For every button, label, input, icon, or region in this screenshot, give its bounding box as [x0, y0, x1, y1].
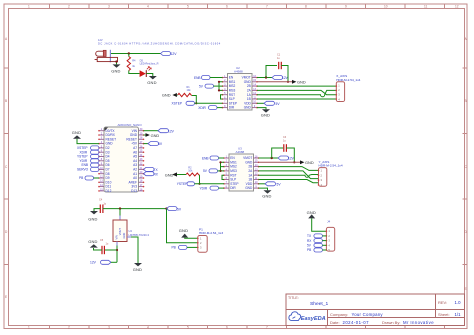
svg-text:6: 6 [226, 5, 228, 9]
net label YSTEP [177, 182, 224, 186]
capacitor C1 [277, 54, 288, 82]
net label 5V (U1 +5V) [144, 142, 163, 147]
U1 left pins [99, 131, 104, 191]
junction [271, 157, 273, 159]
net label YSTEP (U1 D4) [77, 155, 99, 159]
svg-text:4: 4 [147, 5, 149, 9]
power flag GND (U3 right) [300, 160, 314, 165]
svg-text:1: 1 [28, 326, 30, 330]
svg-text:XDIR: XDIR [198, 106, 206, 110]
junction [293, 161, 295, 163]
net label 5V (J4 pin4) [307, 243, 326, 247]
IC U4 LM7805 [113, 209, 149, 242]
net flag 12V (regulator in) [90, 260, 117, 264]
wire C1 loop [266, 66, 277, 78]
wire VMOT (U3) [259, 157, 279, 159]
svg-text:GND: GND [179, 228, 188, 233]
svg-text:PB: PB [79, 176, 83, 180]
svg-text:12V: 12V [171, 52, 178, 56]
capacitor C5 [100, 239, 117, 254]
net label YDIR [200, 186, 225, 190]
svg-text:GND: GND [305, 160, 314, 165]
U3 right pins [254, 158, 259, 188]
svg-text:2: 2 [68, 326, 70, 330]
pin numbers U2 [224, 75, 256, 108]
wire 5V rail (regulator out) [103, 208, 167, 210]
net label XSTEP [172, 101, 223, 105]
svg-text:XSTEP: XSTEP [172, 102, 182, 106]
svg-text:VOUT: VOUT [118, 228, 122, 236]
connector J4 [326, 220, 335, 253]
svg-text:GND: GND [147, 80, 156, 85]
wire RST-SLP tie [221, 95, 223, 99]
svg-text:R4: R4 [132, 59, 136, 63]
wire 2B to Y_AXIS pin1 [259, 167, 319, 171]
net flag 12V (U3 VMOT) [278, 156, 295, 161]
wire 1B to X_AXIS pin4 [257, 98, 336, 100]
junction [165, 207, 167, 209]
wire RST-SLP tie (U3) [222, 175, 224, 179]
wire U2 GND pin [257, 81, 292, 83]
svg-text:D13: D13 [131, 189, 137, 193]
svg-text:12: 12 [455, 5, 459, 9]
U2 pin names [229, 76, 237, 110]
capacitor C4 [99, 199, 107, 214]
power flag GND (R2) [165, 172, 177, 177]
svg-text:GND: GND [88, 239, 97, 244]
junction [265, 76, 267, 78]
U3 pin names [230, 156, 238, 190]
svg-text:GND: GND [165, 172, 174, 177]
svg-text:LED-Red,box_R: LED-Red,box_R [140, 62, 159, 66]
svg-text:3: 3 [108, 5, 110, 9]
svg-text:Sheet:: Sheet: [438, 312, 450, 317]
svg-text:B: B [5, 99, 7, 103]
power flag GND (R1) [162, 93, 177, 98]
net label ENB [194, 76, 223, 80]
wire 2A to X_AXIS pin3 (cross) [257, 90, 336, 94]
net label ENB (U3) [202, 156, 224, 160]
wire 1A to X_AXIS pin2 (hop) [257, 90, 336, 96]
svg-text:DC JACK C-01604 HTTPS://AM.ZUH: DC JACK C-01604 HTTPS://AM.ZUHGDENGHI.CO… [98, 42, 221, 46]
net label ENB (U1 D6) [82, 163, 100, 167]
EasyEDA logo [289, 312, 326, 322]
svg-text:EasyEDA: EasyEDA [301, 316, 326, 322]
net flag 12V [161, 52, 178, 57]
svg-text:YSTEP: YSTEP [177, 182, 187, 186]
svg-text:GND: GND [261, 113, 270, 118]
svg-text:B: B [465, 99, 467, 103]
svg-text:8: 8 [305, 5, 307, 9]
svg-text:1/1: 1/1 [455, 312, 462, 317]
svg-text:Date:: Date: [330, 320, 340, 325]
junction [195, 102, 197, 104]
svg-text:PB: PB [307, 248, 311, 252]
svg-text:TITLE:: TITLE: [288, 296, 299, 300]
title block [286, 294, 465, 326]
svg-text:GND: GND [307, 210, 316, 215]
net label RX (J4 pin3) [307, 239, 326, 243]
IC U1 ARDUINO_NANO [104, 123, 142, 192]
net label XDIR [198, 106, 222, 110]
wire U2 VDD [257, 102, 264, 104]
ground (U1 left) [72, 130, 99, 144]
svg-text:5: 5 [187, 5, 189, 9]
wire U3 GND bottom [259, 188, 268, 190]
svg-text:PB: PB [172, 246, 176, 250]
ground (LED) [146, 74, 157, 86]
wire U2 GND bottom [257, 108, 266, 110]
svg-text:10: 10 [384, 5, 388, 9]
svg-text:GND: GND [162, 93, 171, 98]
ground (C5) [88, 239, 102, 250]
svg-text:J4: J4 [327, 220, 331, 224]
wire regulator GND [127, 236, 131, 238]
svg-text:VIN: VIN [115, 235, 119, 239]
svg-text:GND: GND [151, 133, 160, 138]
wire 12V rail [111, 53, 161, 55]
svg-text:REV:: REV: [438, 300, 447, 305]
power flag GND (U1 right) [144, 133, 160, 138]
net label XSTEP (U1 D2) [77, 146, 99, 150]
wire 5V to P1 [167, 209, 198, 243]
net label TX (U1 A2) [144, 167, 159, 172]
net label TX (J4 pin2) [307, 234, 326, 238]
connector Y_AXIS [318, 160, 343, 187]
net label SERVO (U1 D7) [77, 167, 99, 171]
svg-text:DIR: DIR [229, 106, 235, 110]
net flag 12V (U1 VIN) [158, 129, 175, 134]
svg-text:GND: GND [72, 130, 81, 135]
net label PB (P1) [172, 245, 198, 249]
wire MS1-MS3 tie [219, 82, 223, 91]
IC U2 A4988 [228, 66, 253, 110]
svg-text:2024-01-07: 2024-01-07 [343, 320, 370, 325]
svg-text:GND: GND [122, 233, 126, 239]
net label 5V (U3 MS) [203, 169, 221, 173]
LED D5 [140, 58, 159, 77]
wire 1B to Y_AXIS pin4 [259, 180, 319, 183]
svg-text:E: E [5, 295, 7, 299]
svg-text:6: 6 [226, 326, 228, 330]
net label 5V (U2 VDD) [264, 101, 280, 106]
U2 left pins [223, 78, 228, 108]
svg-text:4: 4 [147, 326, 149, 330]
ground (J4) [307, 210, 327, 231]
U3 left pins [224, 158, 229, 188]
svg-text:ENB: ENB [202, 156, 209, 160]
junction [287, 81, 289, 83]
U2 right pins [252, 78, 257, 108]
connector J1 DC jack [95, 38, 221, 63]
ground (jack) [111, 60, 120, 73]
svg-text:A4988: A4988 [234, 70, 243, 74]
junction [128, 52, 130, 54]
svg-text:12V: 12V [168, 129, 175, 133]
wire MS1-MS3 tie (U3) [221, 162, 225, 171]
svg-text:12V: 12V [288, 157, 295, 161]
svg-text:ARDUINO_NANO: ARDUINO_NANO [118, 123, 143, 127]
net flag 5V (regulator out) [167, 207, 182, 212]
svg-text:7: 7 [266, 326, 268, 330]
svg-text:HDR-M-2.54_1x4: HDR-M-2.54_1x4 [319, 164, 343, 168]
svg-text:GND: GND [262, 194, 271, 199]
net label PB (J4 pin5) [307, 248, 326, 252]
net label 5V (U2 MS) [199, 84, 219, 88]
junction [119, 207, 121, 209]
U1 right pins [139, 131, 144, 191]
wire U3 GND pin [259, 161, 301, 163]
svg-text:GND: GND [111, 68, 120, 73]
junction [116, 249, 118, 251]
svg-text:HDR-M-2.54_1x3: HDR-M-2.54_1x3 [199, 231, 223, 235]
wire VMOT [257, 77, 272, 79]
connector P1 [197, 227, 223, 252]
wire C3 loop [272, 148, 284, 158]
junction [218, 81, 220, 83]
svg-text:GND: GND [88, 216, 97, 221]
ground (regulator) [133, 263, 142, 272]
svg-text:GND: GND [133, 267, 142, 272]
svg-text:GND: GND [244, 106, 252, 110]
resistor R1 [177, 86, 196, 103]
svg-text:Your Company: Your Company [352, 312, 384, 317]
net label 5V (U3 VDD) [265, 182, 281, 187]
wire 2B to X_AXIS pin1 [257, 85, 336, 87]
svg-text:Company:: Company: [330, 312, 348, 317]
U1 pin names [106, 129, 117, 193]
svg-text:1.0: 1.0 [455, 300, 462, 305]
svg-text:12V: 12V [90, 261, 97, 265]
junction [219, 161, 221, 163]
svg-text:SERVO: SERVO [77, 168, 89, 172]
junction [219, 170, 221, 172]
junction [218, 89, 220, 91]
wire 2A to Y_AXIS pin3 (cross) [259, 171, 319, 179]
wire VIN bottom [116, 242, 118, 246]
svg-text:Drawn By:: Drawn By: [382, 320, 400, 325]
svg-text:LM7805-TO220-3: LM7805-TO220-3 [129, 233, 150, 237]
svg-text:GND: GND [245, 186, 253, 190]
svg-text:GND: GND [297, 80, 306, 85]
svg-text:YDIR: YDIR [200, 187, 208, 191]
connector X_AXIS [336, 74, 361, 102]
junction [198, 183, 200, 185]
svg-text:Sheet_1: Sheet_1 [310, 301, 329, 307]
wire 1A to Y_AXIS pin2 (hop) [259, 175, 319, 178]
svg-text:2: 2 [68, 5, 70, 9]
svg-text:11: 11 [424, 5, 428, 9]
net flag 12V (U2 VMOT) [272, 76, 289, 81]
resistor R4 [127, 54, 136, 71]
svg-text:ENB: ENB [194, 76, 201, 80]
svg-text:DIR: DIR [230, 186, 236, 190]
ground (C4) [88, 209, 100, 222]
svg-text:U4: U4 [129, 229, 133, 233]
svg-text:7: 7 [266, 5, 268, 9]
power flag GND (U2 right) [292, 80, 306, 85]
wire U1 VIN [144, 130, 159, 132]
svg-text:5: 5 [187, 326, 189, 330]
pin numbers U1 [100, 128, 143, 191]
ground (U2) [261, 109, 270, 117]
capacitor C3 [283, 136, 294, 162]
svg-text:D12: D12 [106, 189, 112, 193]
net label PB (U1 D9) [79, 176, 99, 180]
svg-text:12V: 12V [98, 38, 103, 42]
resistor R2 [177, 166, 200, 184]
wire U3 VDD [259, 183, 266, 185]
svg-text:9: 9 [345, 5, 347, 9]
svg-text:Mr Innovative: Mr Innovative [403, 320, 434, 325]
IC U3 A4988 [229, 146, 254, 191]
net label RX (U1 A1) [144, 172, 159, 177]
wire R4 to LED [129, 71, 140, 74]
pin numbers U3 [226, 155, 258, 188]
net label YDIR (U1 D5) [80, 159, 100, 163]
svg-text:3: 3 [108, 326, 110, 330]
svg-text:E: E [465, 287, 467, 291]
svg-text:1: 1 [28, 5, 30, 9]
ground (U3) [262, 190, 271, 198]
svg-text:A4988: A4988 [236, 150, 245, 154]
net label XDIR (U1 D3) [80, 150, 100, 154]
ground (P1) [179, 228, 198, 238]
